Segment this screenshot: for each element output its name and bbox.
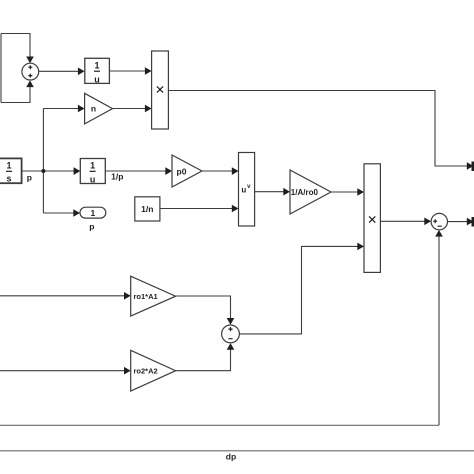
product X2 (364, 164, 380, 273)
wire gain n to product X1 (113, 108, 147, 110)
arrowhead into 1/u U1 (78, 68, 85, 76)
power block u^v (239, 153, 255, 227)
wire product X1 to right outport (168, 91, 468, 167)
wire gain ro2*A2 to sum S3 bottom (176, 348, 231, 371)
svg-text:u: u (241, 186, 246, 195)
wire sum S1 to 1/u block U1 (39, 70, 80, 72)
wire feedback left vertical (0, 34, 2, 103)
arrowhead into 1/u U2 (74, 167, 81, 175)
svg-text:p: p (27, 173, 32, 183)
arrowhead into gain n (78, 105, 85, 113)
sum S1 (22, 63, 39, 80)
arrowhead into power block lower (232, 205, 239, 213)
1/u block U2 (80, 159, 105, 185)
svg-text:1: 1 (91, 208, 96, 218)
arrowhead into gain 1/A/ro0 (283, 188, 290, 196)
wire junction to outport oval (43, 212, 74, 214)
1/u block U1 (85, 58, 110, 84)
wire input to gain ro1*A1 (0, 295, 126, 297)
wire power block to gain 1/A/ro0 (255, 191, 285, 193)
svg-text:1/p: 1/p (111, 172, 123, 182)
wire bottom feedback up into sum S2 (438, 235, 440, 425)
arrowhead into sum S3 top (227, 318, 235, 325)
svg-text:1/n: 1/n (141, 204, 153, 214)
arrowhead into sum S2 left (424, 218, 431, 226)
arrowhead into sum S2 bottom (435, 230, 443, 237)
gain 1/A/ro0 (290, 170, 331, 214)
svg-text:dp: dp (226, 452, 236, 462)
junction dot on p line (41, 169, 45, 173)
wire 1/n to power block (160, 208, 233, 210)
wire sum S2 to right outport (448, 221, 469, 223)
svg-text:ro2*A2: ro2*A2 (134, 367, 158, 376)
wire junction vertical (42, 109, 44, 214)
right outport top block edge (472, 162, 474, 172)
gain ro2*A2 (131, 350, 176, 391)
wire input to gain ro2*A2 (0, 370, 126, 372)
arrowhead into gain ro1*A1 (124, 292, 131, 300)
sum S3 (222, 325, 240, 343)
wire gain 1/A/ro0 to product X2 (331, 191, 359, 193)
gain ro1*A1 (131, 276, 176, 316)
product X1 (152, 51, 169, 129)
outport oval 1 (p) (80, 207, 106, 218)
wire dp bottom line (0, 450, 474, 452)
wire into sum S1 bottom (1, 85, 30, 103)
arrowhead into gain p0 (165, 167, 172, 175)
wire 1/u U2 to gain p0 (105, 170, 166, 172)
wire integrator 1/s output with junction (22, 170, 75, 172)
svg-text:u: u (90, 175, 96, 185)
gain p0 (172, 155, 202, 187)
arrowhead into outport oval p (73, 209, 80, 217)
wire gain p0 to power block (202, 170, 233, 172)
arrowhead into product X1 upper (145, 67, 152, 75)
svg-text:1: 1 (90, 161, 95, 171)
arrowhead into product X2 lower (357, 243, 364, 251)
wire gain ro1*A1 to sum S3 top (176, 296, 231, 320)
arrowhead right outport middle (467, 218, 474, 226)
gain n (85, 93, 113, 124)
wire bottom feedback horizontal line (0, 424, 439, 426)
wire into sum S1 top (1, 34, 30, 59)
arrowhead into sum S1 bottom (26, 80, 34, 87)
sum S2 (431, 213, 447, 229)
svg-text:s: s (6, 174, 11, 184)
arrowhead into sum S1 top (26, 57, 34, 64)
wire product X2 to sum S2 (380, 220, 425, 222)
arrowhead into power block upper (232, 167, 239, 175)
svg-text:n: n (91, 104, 96, 114)
svg-text:1/A/ro0: 1/A/ro0 (291, 188, 319, 197)
wire junction to gain n (43, 108, 79, 110)
svg-text:p: p (89, 222, 94, 232)
svg-text:p0: p0 (177, 167, 187, 177)
wire sum S3 to product X2 lower input (240, 246, 359, 334)
arrowhead into product X2 upper (357, 188, 364, 196)
arrowhead into product X1 lower (145, 105, 152, 113)
arrowhead into gain ro2*A2 (124, 367, 131, 375)
svg-text:ro1*A1: ro1*A1 (134, 292, 158, 301)
integrator 1/s (cut at left edge) (0, 158, 22, 183)
arrowhead right outport top (467, 162, 474, 170)
right outport middle block edge (472, 217, 474, 227)
svg-text:1: 1 (6, 161, 11, 171)
svg-text:1: 1 (94, 61, 99, 71)
1/n block (135, 197, 160, 221)
svg-text:u: u (94, 75, 100, 85)
wire 1/u U1 to product X1 (109, 70, 146, 72)
arrowhead into sum S3 bottom (227, 343, 235, 350)
